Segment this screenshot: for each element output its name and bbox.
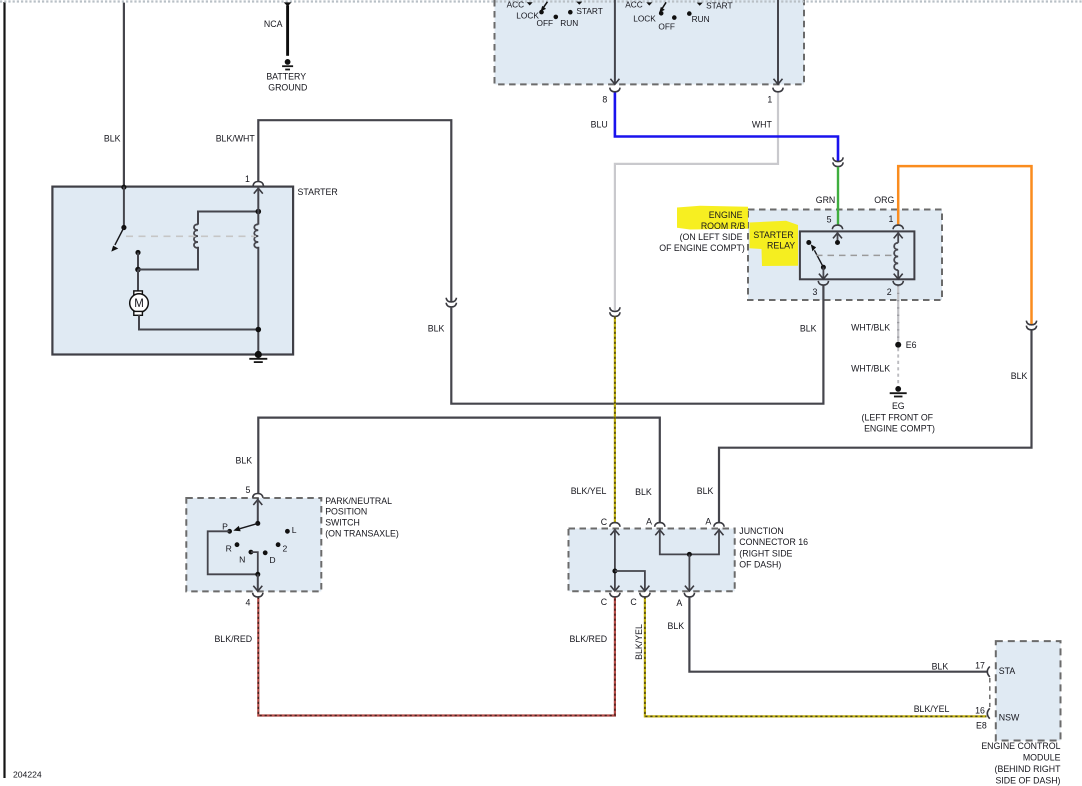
PNP contact L <box>285 529 290 534</box>
ignition switch box <box>495 0 805 84</box>
PNP selector switch <box>255 521 260 526</box>
svg-text:ROOM R/B: ROOM R/B <box>701 221 746 231</box>
svg-text:1: 1 <box>767 94 772 104</box>
svg-text:NSW: NSW <box>999 713 1020 723</box>
svg-text:SWITCH: SWITCH <box>325 518 360 528</box>
svg-text:BLK: BLK <box>932 661 949 671</box>
ECM pin 17 connector <box>987 667 990 677</box>
wire WHT/BLK E6 to EG ground <box>897 348 899 386</box>
svg-text:STA: STA <box>999 666 1016 676</box>
svg-text:BLU: BLU <box>591 120 608 130</box>
svg-text:BLK: BLK <box>635 487 652 497</box>
svg-text:L: L <box>292 525 297 535</box>
PNP contact 2 <box>276 542 281 547</box>
starter coil left <box>194 224 198 248</box>
svg-text:(ON TRANSAXLE): (ON TRANSAXLE) <box>325 528 399 538</box>
ignition switch 2 contacts <box>646 2 652 5</box>
page top border <box>0 0 1082 2</box>
starter contact node <box>135 250 140 255</box>
svg-text:(ON LEFT SIDE: (ON LEFT SIDE <box>680 232 743 242</box>
junction internal C bus <box>614 529 616 592</box>
svg-text:16: 16 <box>975 706 985 716</box>
svg-text:5: 5 <box>827 215 832 225</box>
svg-text:5: 5 <box>245 485 250 495</box>
svg-text:1: 1 <box>889 214 894 224</box>
svg-text:(RIGHT SIDE: (RIGHT SIDE <box>739 548 792 558</box>
svg-text:(LEFT FRONT OF: (LEFT FRONT OF <box>862 412 934 422</box>
connector BLK/WHT to BLK <box>446 298 456 302</box>
svg-text:ENGINE: ENGINE <box>709 210 743 220</box>
svg-text:P: P <box>222 522 228 532</box>
svg-text:STARTER: STARTER <box>298 187 338 197</box>
svg-text:BLK/RED: BLK/RED <box>214 634 252 644</box>
svg-text:1: 1 <box>245 174 250 184</box>
relay pin 2 exit <box>894 274 903 279</box>
svg-text:BLK/WHT: BLK/WHT <box>216 134 256 144</box>
svg-text:4: 4 <box>245 598 250 608</box>
relay pin 5 entry <box>832 225 842 229</box>
svg-text:A: A <box>646 516 652 526</box>
svg-text:8: 8 <box>602 94 607 104</box>
svg-text:BLK/RED: BLK/RED <box>569 634 607 644</box>
svg-text:BLK: BLK <box>104 134 121 144</box>
svg-text:SIDE OF DASH): SIDE OF DASH) <box>995 776 1060 786</box>
svg-text:R: R <box>226 543 232 553</box>
ignition switch 1 wire to pin 8 <box>614 0 616 84</box>
wire WHT ignition pin1 to connector <box>615 92 778 311</box>
wire BLK/RED park/neutral pin4 to junction connector C <box>258 597 615 716</box>
junction bottom pin C (BLK/YEL) <box>640 586 649 591</box>
svg-text:BLK: BLK <box>1011 371 1028 381</box>
PNP contact D <box>263 550 268 555</box>
starter pull-in coil branch <box>138 247 198 270</box>
svg-text:E8: E8 <box>976 720 987 730</box>
svg-text:POSITION: POSITION <box>325 507 367 517</box>
svg-text:WHT: WHT <box>752 120 773 130</box>
PNP contact R <box>235 542 240 547</box>
relay switch <box>806 240 811 245</box>
junction connector 16 box <box>569 529 735 592</box>
starter solenoid switch <box>121 225 126 230</box>
starter relay box <box>800 231 915 279</box>
svg-text:BLK/YEL: BLK/YEL <box>571 486 607 496</box>
junction bottom pin C (BLK/RED) <box>610 586 619 591</box>
starter pin 1 entry <box>253 182 263 186</box>
svg-text:2: 2 <box>887 287 892 297</box>
svg-text:START: START <box>576 6 602 16</box>
battery ground lead NCA <box>284 2 292 6</box>
svg-text:BLK/YEL: BLK/YEL <box>914 704 950 714</box>
PNP contact P <box>227 529 232 534</box>
svg-text:OFF: OFF <box>537 18 554 28</box>
svg-text:OF ENGINE COMPT): OF ENGINE COMPT) <box>659 243 745 253</box>
svg-text:C: C <box>630 597 637 607</box>
svg-text:ACC: ACC <box>507 0 525 10</box>
relay pin 1 entry / coil <box>893 225 903 229</box>
svg-text:OFF: OFF <box>658 21 675 31</box>
svg-text:BLK/YEL: BLK/YEL <box>634 624 644 660</box>
svg-text:START: START <box>706 1 732 11</box>
ECM connector E8 dashed link <box>989 678 991 707</box>
svg-text:MODULE: MODULE <box>1023 753 1061 763</box>
wire ORG relay pin1 loop <box>898 166 1031 324</box>
starter mechanical link (dashed) <box>126 235 256 237</box>
svg-text:E6: E6 <box>906 340 917 350</box>
wire BLK junction connector A to ECM pin17 <box>689 597 986 672</box>
wire BLK battery to starter <box>123 3 125 187</box>
svg-text:GROUND: GROUND <box>268 82 307 92</box>
ground EG <box>895 386 901 392</box>
relay pin 3 exit <box>819 274 828 279</box>
svg-text:PARK/NEUTRAL: PARK/NEUTRAL <box>325 496 392 506</box>
wire GRN connector to relay pin5 <box>837 167 839 225</box>
ECM pin 16 connector <box>987 708 990 718</box>
splice E6 <box>895 342 901 348</box>
yellow highlight over STARTER RELAY label <box>750 221 799 266</box>
svg-text:OF DASH): OF DASH) <box>739 560 781 570</box>
svg-text:(BEHIND RIGHT: (BEHIND RIGHT <box>995 764 1062 774</box>
page left border <box>3 2 5 778</box>
yellow highlight over ENGINE ROOM R/B label <box>677 206 748 230</box>
svg-text:204224: 204224 <box>13 770 42 780</box>
wire WHT/BLK relay pin2 to E6 <box>897 285 899 341</box>
svg-text:N: N <box>239 555 245 565</box>
PNP pin 4 exit <box>253 586 262 591</box>
svg-text:LOCK: LOCK <box>633 13 656 23</box>
svg-text:C: C <box>601 597 608 607</box>
svg-text:WHT/BLK: WHT/BLK <box>851 364 890 374</box>
svg-text:BLK: BLK <box>800 323 817 333</box>
svg-text:A: A <box>705 516 711 526</box>
wire BLK park/neutral pin5 to junction connector A <box>258 418 660 523</box>
svg-text:BATTERY: BATTERY <box>266 71 306 81</box>
svg-text:WHT/BLK: WHT/BLK <box>851 323 890 333</box>
wire BLK/YEL connector to junction connector C <box>614 317 616 523</box>
park/neutral position switch box <box>186 498 321 591</box>
relay mechanical link (dashed) <box>816 254 893 256</box>
connector BLU to GRN <box>833 157 843 161</box>
svg-text:D: D <box>269 555 275 565</box>
svg-text:RUN: RUN <box>560 18 578 28</box>
starter case ground <box>255 351 262 358</box>
svg-text:RELAY: RELAY <box>767 240 795 250</box>
junction top pin C <box>610 523 620 527</box>
svg-text:A: A <box>676 598 682 608</box>
svg-text:ORG: ORG <box>874 195 894 205</box>
wire BLK/YEL junction connector C to ECM pin16 <box>645 597 987 717</box>
svg-text:NCA: NCA <box>264 19 283 29</box>
PNP pin 5 entry <box>253 494 263 498</box>
engine room R/B dashed box <box>748 210 942 301</box>
junction top pin A (from PNP) <box>655 523 665 527</box>
svg-text:EG: EG <box>892 401 905 411</box>
svg-text:ENGINE COMPT): ENGINE COMPT) <box>864 424 935 434</box>
starter motor M <box>137 270 139 291</box>
starter: battery feed junction <box>121 185 126 190</box>
starter box <box>52 187 293 355</box>
connector WHT to BLK/YEL <box>610 307 620 311</box>
svg-text:JUNCTION: JUNCTION <box>739 526 783 536</box>
junction top pin A (from relay chain) <box>714 523 724 527</box>
svg-text:CONNECTOR 16: CONNECTOR 16 <box>739 537 808 547</box>
wire BLK connector to starter relay pin3 <box>451 285 823 403</box>
svg-text:BLK: BLK <box>697 486 714 496</box>
PNP wiring P/N to pin 4 <box>208 531 258 574</box>
svg-text:RUN: RUN <box>692 14 710 24</box>
engine control module box <box>996 641 1061 740</box>
svg-text:ENGINE CONTROL: ENGINE CONTROL <box>981 741 1060 751</box>
starter coil right <box>254 224 258 248</box>
PNP contact N <box>249 550 254 555</box>
svg-text:ACC: ACC <box>625 0 643 9</box>
wire BLU ignition pin8 to connector <box>615 92 838 161</box>
svg-text:BLK: BLK <box>428 323 445 333</box>
wire BLK/WHT starter pin1 to connector <box>258 120 451 301</box>
svg-text:BLK: BLK <box>668 621 685 631</box>
ground BATTERY GROUND <box>285 59 291 65</box>
svg-text:M: M <box>134 298 144 310</box>
svg-text:C: C <box>601 517 608 527</box>
ignition switch 1 contacts <box>527 2 533 5</box>
svg-text:2: 2 <box>283 543 288 553</box>
junction internal A bus <box>660 529 719 555</box>
connector ORG to BLK <box>1026 321 1036 325</box>
svg-text:BLK: BLK <box>235 456 252 466</box>
wire BLK orange-chain to junction connector A <box>719 330 1032 523</box>
junction bottom pin A (BLK) <box>685 586 694 591</box>
svg-text:17: 17 <box>975 661 985 671</box>
svg-text:3: 3 <box>812 287 817 297</box>
svg-text:GRN: GRN <box>816 195 836 205</box>
ignition switch 2 wire to pin 1 <box>777 0 779 84</box>
svg-text:STARTER: STARTER <box>753 230 793 240</box>
